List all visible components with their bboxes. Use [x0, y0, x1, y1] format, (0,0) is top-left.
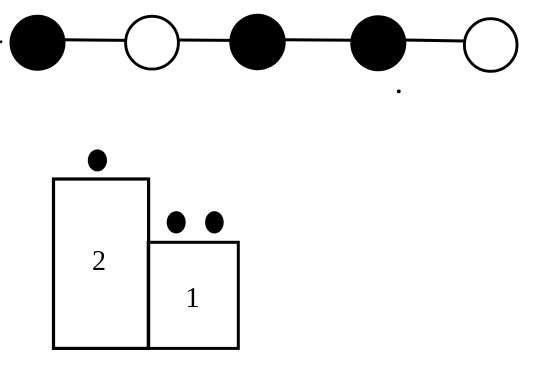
wire	[404, 40, 465, 41]
bead A over box 1	[167, 211, 186, 233]
speck	[397, 90, 401, 94]
wire	[283, 38, 355, 41]
box 2	[54, 179, 149, 348]
wire	[60, 38, 126, 42]
node 4 (filled)	[350, 15, 406, 71]
node 5 (open)	[464, 19, 517, 72]
bead B over box 1	[205, 211, 224, 233]
node 1 (filled)	[10, 15, 66, 71]
box 1	[148, 242, 238, 348]
bead over box 2	[88, 149, 107, 171]
svg-text:2: 2	[92, 246, 106, 277]
wire	[177, 39, 232, 42]
svg-text:1: 1	[185, 282, 200, 314]
node 3 (filled)	[229, 14, 285, 70]
left edge tick	[0, 41, 2, 44]
node 2 (open)	[126, 16, 179, 69]
